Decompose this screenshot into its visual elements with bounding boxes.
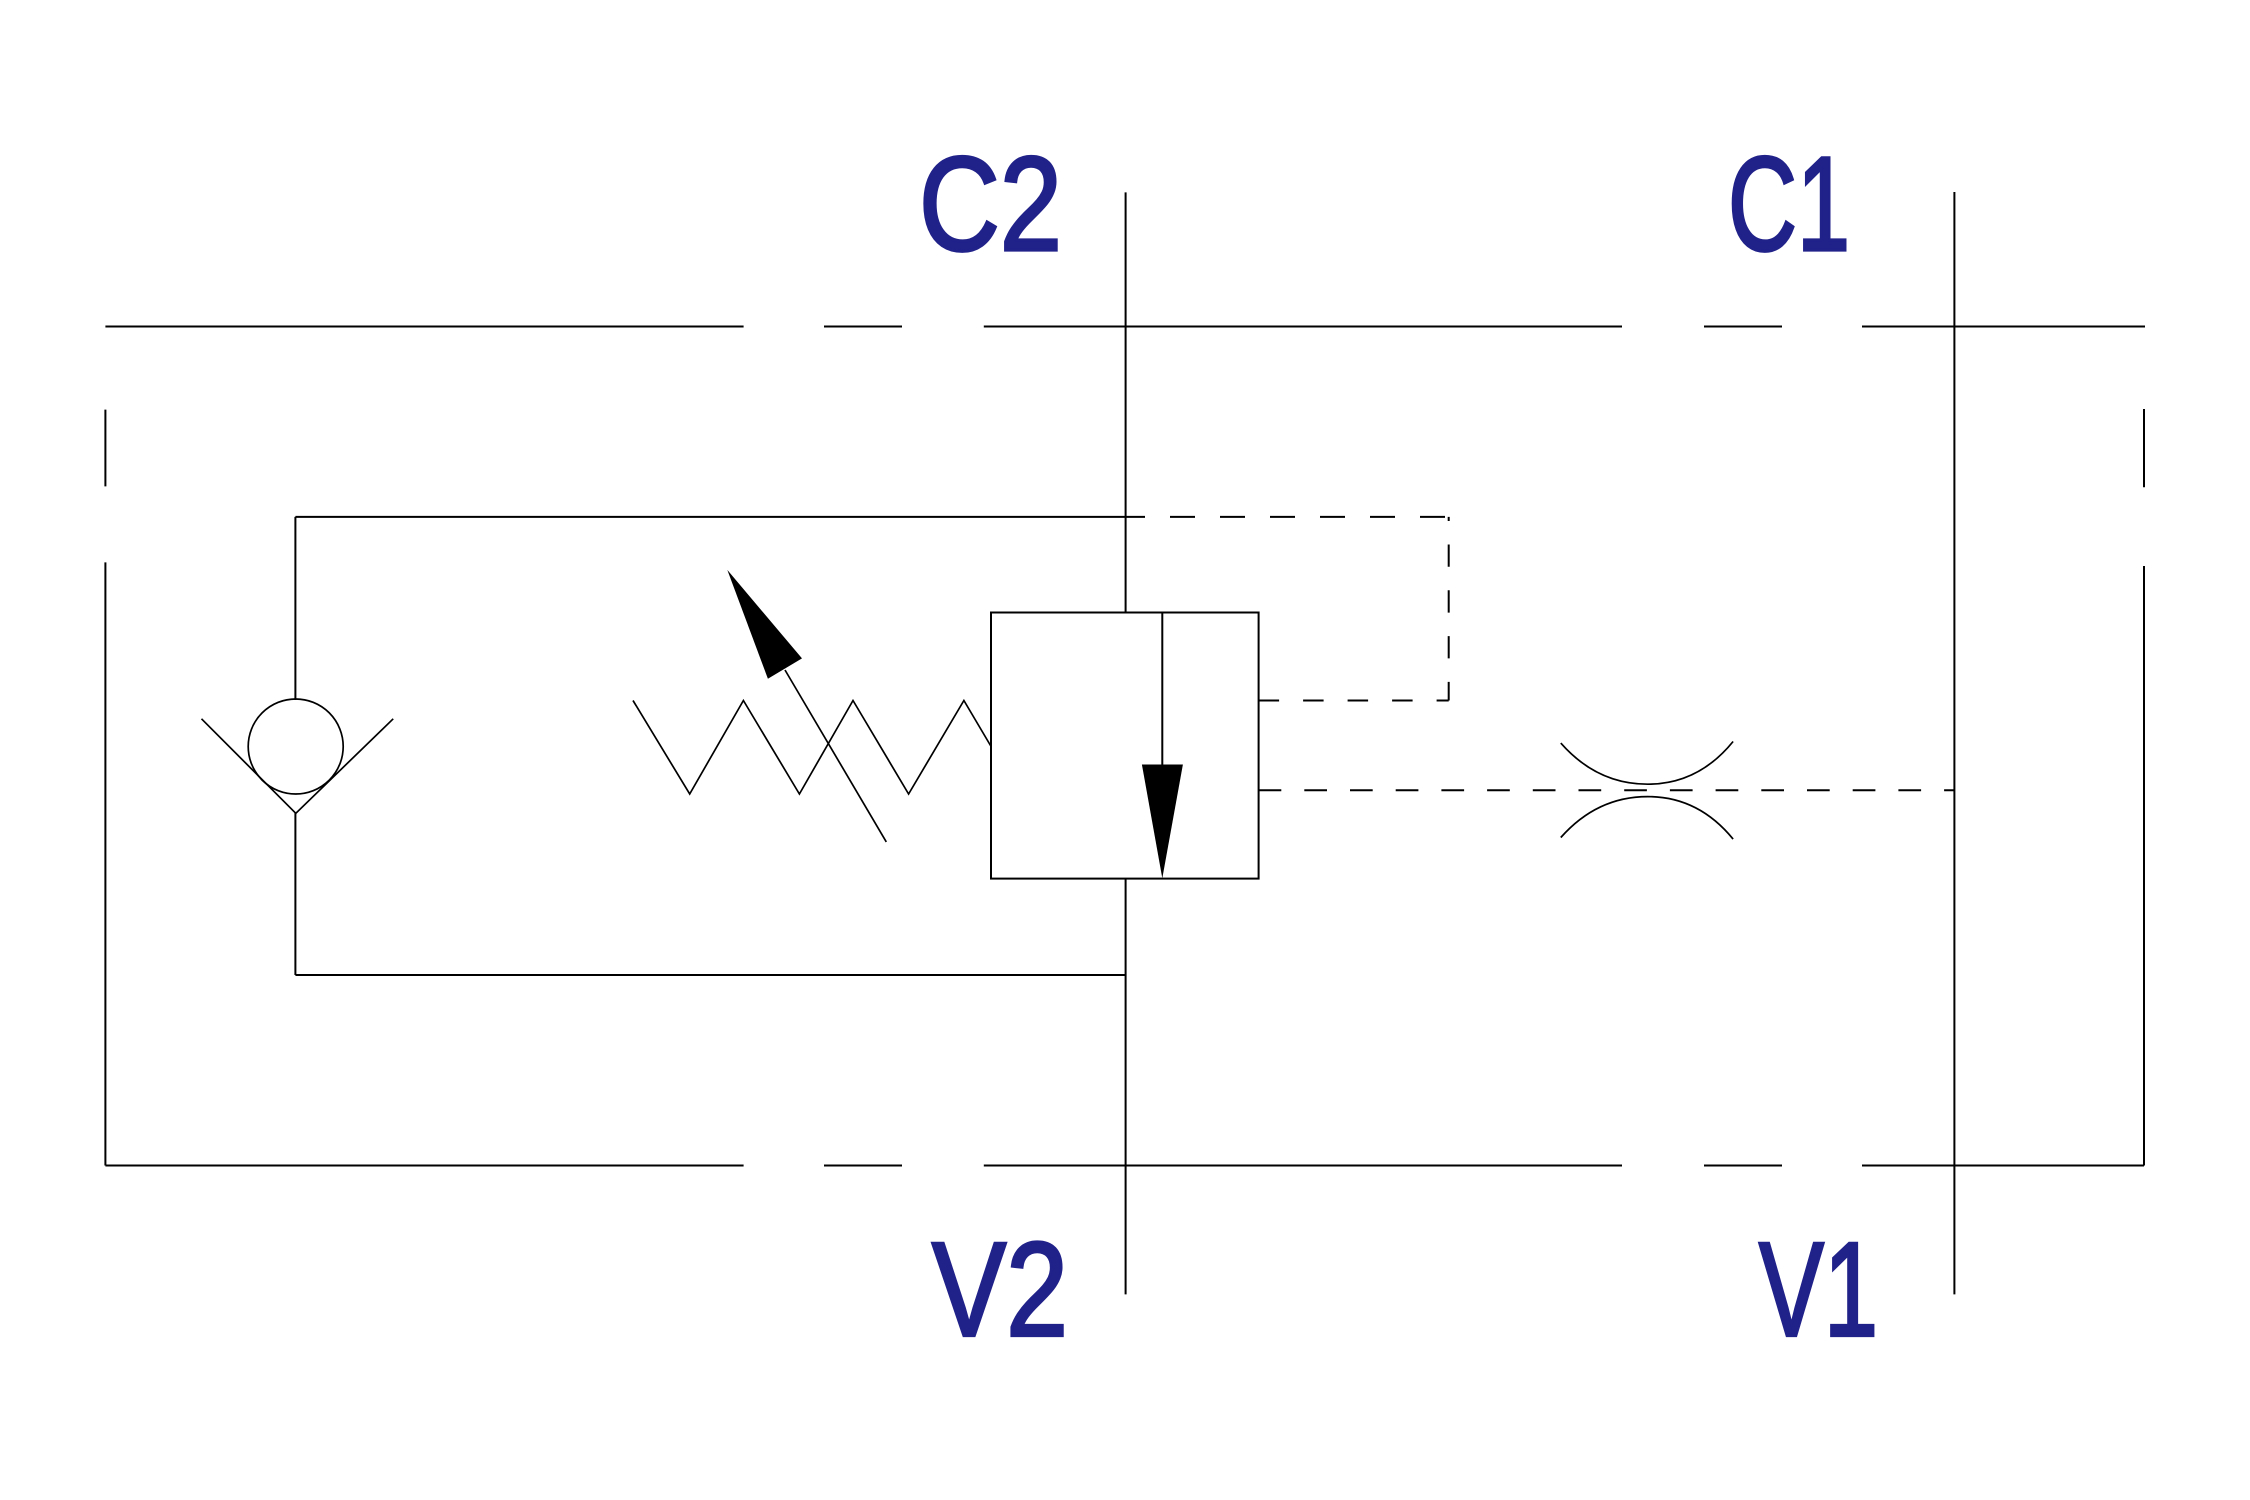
pilot line dashed: into valve right side upper port xyxy=(1259,700,1449,702)
enclosure boundary bottom dashed line xyxy=(105,1165,2144,1167)
orifice restriction upper curve xyxy=(1561,742,1733,785)
wire bypass loop bottom xyxy=(295,974,1125,976)
adjustment arrow head xyxy=(727,570,802,679)
wire check valve upper stub xyxy=(294,517,296,700)
svg-text:V1: V1 xyxy=(1759,1216,1878,1365)
enclosure boundary right dashed line xyxy=(2143,409,2145,1166)
valve internal flow line xyxy=(1161,613,1163,766)
counterbalance valve body square xyxy=(991,613,1259,879)
wire bypass loop top xyxy=(295,516,1125,518)
orifice restriction lower curve xyxy=(1561,797,1733,840)
pilot line dashed: lower run from valve to C1 through orifice xyxy=(1259,789,1955,791)
adjustment arrow shaft xyxy=(785,670,886,842)
pilot line dashed: right vertical drop xyxy=(1448,517,1450,701)
wire check valve lower stub xyxy=(294,813,296,975)
svg-text:C1: C1 xyxy=(1728,130,1850,279)
pilot line dashed: top run from C2 line xyxy=(1126,516,1449,518)
enclosure boundary left dashed line xyxy=(104,410,106,1166)
wire C1 to V1 vertical line xyxy=(1953,192,1955,1294)
valve internal arrow head xyxy=(1142,765,1183,879)
enclosure boundary top dashed line xyxy=(105,326,2145,328)
check valve seat xyxy=(202,719,394,814)
check valve poppet circle xyxy=(248,699,343,794)
wire C2 to V2 vertical line xyxy=(1125,192,1127,1294)
spring (zigzag) xyxy=(633,701,991,795)
svg-text:V2: V2 xyxy=(932,1216,1068,1365)
svg-text:C2: C2 xyxy=(919,130,1062,279)
